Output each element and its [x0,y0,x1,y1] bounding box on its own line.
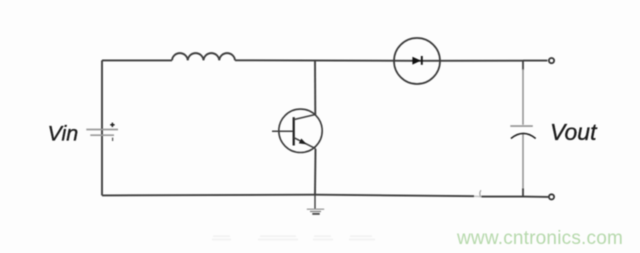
svg-text:Vout: Vout [550,119,598,145]
svg-text:www.cntronics.com: www.cntronics.com [456,228,623,249]
svg-text:Vin: Vin [48,121,79,145]
